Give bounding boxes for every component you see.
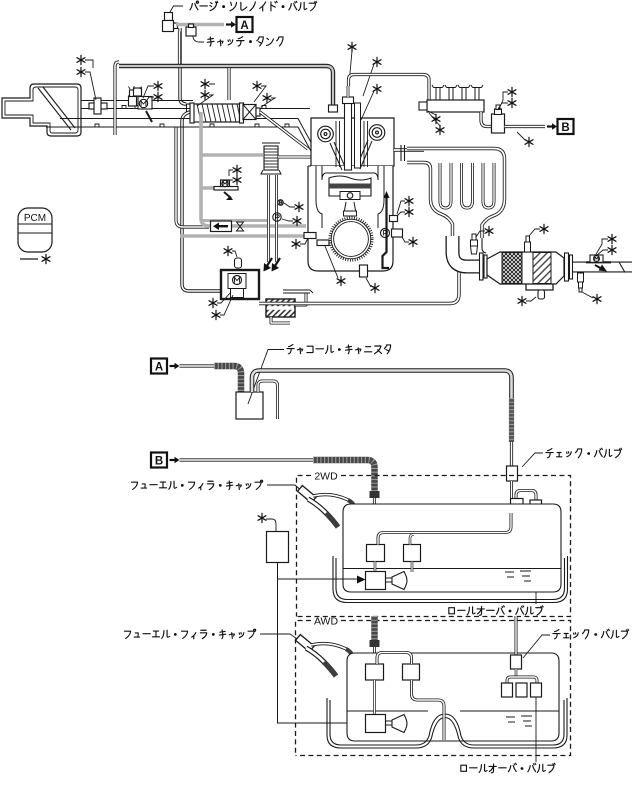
connector A box: [237, 17, 253, 32]
canister line into AWD: [515, 616, 518, 655]
feed line into pump: [290, 578, 358, 580]
rear O2 sensor: [578, 273, 584, 282]
ref mark: [593, 294, 601, 303]
EGR valve box M: [221, 270, 259, 299]
svg-text:2WD: 2WD: [314, 471, 338, 483]
long pipe to exhaust: [259, 268, 459, 304]
leader catch tank: [193, 36, 204, 42]
2WD fuel tank: [343, 504, 561, 592]
conn rod: [344, 202, 356, 213]
ref mark: [233, 165, 241, 174]
breather tube 2WD: [313, 495, 354, 514]
label: charcoal canister: [287, 345, 391, 354]
charcoal canister: [236, 392, 263, 419]
sensor capsule above: [235, 258, 242, 268]
catch tank: [186, 27, 196, 36]
middle O2 sensor: [525, 242, 531, 252]
injector tube: [355, 103, 361, 168]
canister line (hatched): [252, 371, 512, 401]
dark band on pipe: [586, 261, 611, 263]
purge hose down to duct fitting: [180, 28, 186, 104]
check valve AWD: [511, 655, 522, 669]
lower duct bottom edge: [46, 127, 313, 155]
leader crank fitting: [325, 246, 338, 278]
ref mark: [525, 137, 533, 146]
cam pulley right: [369, 125, 385, 141]
fork outer left: [407, 163, 453, 239]
sensor circle P: [273, 213, 281, 221]
intake valve: [330, 142, 346, 170]
fork slot: [440, 163, 451, 208]
leaders bypass valve: [254, 86, 275, 107]
filler neck AWD: [306, 648, 336, 676]
leader check valve AWD: [523, 635, 550, 658]
hatched cooler: [266, 299, 295, 317]
leaders to throttle: [143, 86, 154, 102]
vacuum solenoid M: [214, 187, 238, 191]
air cleaner hatch lines: [38, 87, 75, 130]
ref mark: [253, 81, 261, 90]
hatched segment: [509, 398, 514, 442]
ref mark: [42, 254, 50, 263]
ref mark: [154, 81, 162, 90]
pipe joint: [619, 262, 625, 273]
vent pipe in tank: [378, 513, 511, 545]
ref mark: [293, 216, 301, 225]
breather tube AWD: [311, 644, 352, 663]
hose coil to engine: [278, 157, 318, 170]
fuel damper: [481, 112, 492, 127]
pipe into saddle: [412, 680, 445, 740]
gray branch to P sensor: [202, 219, 270, 222]
label: catch tank: [207, 37, 283, 46]
crank toothed wheel: [330, 218, 373, 261]
bold pointer solenoid: [224, 192, 231, 198]
leader line to rollover label: [535, 512, 537, 604]
exhaust downpipe elbow: [453, 236, 482, 267]
canister vent pipe: [258, 381, 278, 419]
exhaust valve: [356, 140, 372, 169]
filler neck 2WD: [308, 499, 338, 527]
ref mark: [212, 310, 220, 319]
hose pair right: [275, 175, 278, 262]
rollover manifold AWD: [507, 677, 537, 683]
fuel pump 2WD: [366, 572, 386, 590]
rollover valve assembly right: [516, 491, 536, 501]
ref mark: [348, 42, 356, 51]
combustion chamber: [322, 166, 378, 180]
pressure control unit: [267, 532, 289, 563]
fork slot: [483, 163, 494, 208]
pipe from B: [180, 458, 314, 461]
ref mark: [540, 224, 548, 233]
ref mark: [508, 98, 516, 107]
ref mark: [608, 234, 616, 243]
line to AWD pump: [278, 579, 291, 723]
label: check valve 2WD: [546, 448, 622, 458]
leaders to MAF: [85, 60, 96, 100]
filler cap 2WD: [298, 486, 317, 503]
PCM module: [18, 208, 52, 252]
fitting right upper: [390, 216, 398, 222]
injector stub: [432, 85, 444, 100]
leaders corrugated hose: [197, 84, 215, 106]
cylinder walls: [316, 166, 384, 228]
hose drop to corrugated hose: [227, 68, 230, 100]
svg-text:A: A: [240, 20, 248, 32]
connector A (lower): [151, 359, 167, 374]
purge solenoid valve: [165, 13, 173, 21]
label: rollover valve AWD: [461, 763, 555, 773]
orifice symbol: [237, 222, 244, 231]
pipe from A: [180, 364, 215, 367]
sensor circle 1: [278, 200, 284, 206]
ref mark: [292, 239, 300, 248]
upper duct top edge: [81, 100, 193, 102]
arrow out of B: [170, 459, 176, 461]
filler cap AWD: [296, 635, 315, 652]
svg-text:PCM: PCM: [24, 213, 46, 224]
bypass valve: [243, 105, 256, 120]
throttle body motor M: [138, 97, 152, 110]
ref mark: [405, 207, 413, 216]
leader check valve: [522, 453, 543, 467]
exhaust flange 1: [480, 253, 484, 280]
ref mark: [405, 196, 413, 205]
MAF sensor: [89, 103, 107, 109]
ref mark: [409, 237, 417, 246]
jet pump funnel 2WD: [392, 572, 407, 590]
AWD tank outer shell (saddle): [330, 700, 564, 745]
ref mark: [201, 79, 209, 88]
gray branch to solenoid: [201, 186, 215, 190]
head tower walls: [336, 121, 368, 167]
fork slot: [462, 163, 473, 208]
pressure sensor P on engine: [381, 229, 390, 238]
label: purge solenoid valve: [190, 1, 317, 11]
gray hose to coil: [201, 153, 263, 157]
check valve 2WD: [507, 466, 518, 481]
ref mark: [373, 84, 381, 93]
purge hose to A (gray): [176, 23, 224, 27]
AWD fuel tank body: [347, 653, 559, 741]
ref mark: [371, 283, 379, 292]
ref mark: [154, 92, 162, 101]
ref mark: [518, 296, 526, 305]
svg-text:AWD: AWD: [314, 616, 339, 628]
rollover valve right 2WD: [404, 545, 421, 562]
cam pulley left: [318, 126, 334, 142]
catalytic converter: [487, 252, 564, 284]
svg-text:B: B: [155, 455, 163, 467]
ref mark: [258, 513, 266, 522]
ref mark: [77, 67, 85, 76]
front O2 sensor: [471, 240, 478, 246]
fuel marks AWD: [506, 716, 532, 726]
ref mark: [436, 125, 444, 134]
engine block: [308, 166, 393, 271]
ref mark: [77, 55, 85, 64]
bold pointer throttle: [146, 111, 152, 122]
bold EVAP line on engine: [383, 197, 390, 268]
gray hose lower to engine: [180, 234, 306, 238]
duct fitting: [187, 104, 195, 112]
hose duct to upper line: [115, 62, 119, 135]
connector B (lower): [151, 453, 167, 468]
injector stub: [458, 85, 470, 100]
ref mark: [233, 175, 241, 184]
hose pair left: [267, 175, 270, 262]
ref mark: [373, 57, 381, 66]
label: check valve AWD: [553, 629, 629, 639]
hose duct drain: [176, 127, 209, 227]
dark hose from A: [214, 366, 241, 392]
fork outer right: [407, 149, 505, 239]
cooler pipe upper: [295, 293, 306, 305]
corrugated intake hose: [194, 104, 240, 122]
arrow into B: [547, 125, 553, 127]
spark plug tube: [345, 103, 352, 170]
fitting left low: [317, 240, 329, 246]
arrow into A: [226, 23, 232, 25]
manifold flange: [401, 145, 405, 161]
jet pump funnel AWD: [392, 715, 407, 733]
cooler pipe lower: [271, 317, 290, 323]
gray hose throttle down and right to engine: [201, 112, 306, 226]
rollover valve left 2WD: [367, 545, 385, 562]
hose head to fuel rail: [349, 75, 430, 101]
ref mark: [337, 276, 345, 285]
leader purge solenoid valve: [170, 6, 183, 12]
fuel level AWD: [347, 710, 559, 712]
injector stub: [471, 85, 483, 100]
upper duct bottom edge: [81, 108, 310, 110]
check valve (one-way): [211, 221, 232, 232]
leader to rollover label AWD: [535, 697, 537, 762]
under-cat chamber: [526, 284, 553, 290]
tail pipe: [573, 262, 632, 273]
fuel pump AWD: [366, 715, 386, 733]
line to 2WD pump: [278, 563, 291, 580]
ref mark: [508, 87, 516, 96]
leaders top: [349, 51, 374, 120]
svg-text:A: A: [155, 361, 163, 373]
rollover valve right AWD: [403, 664, 420, 680]
ref mark: [224, 246, 232, 255]
dark hose into AWD tank: [371, 616, 378, 641]
air cleaner box: [2, 84, 81, 136]
fuel level 2WD: [343, 568, 561, 570]
exhaust flange 2: [565, 253, 569, 281]
pipe down to rollover valve: [373, 498, 376, 545]
leader canister: [248, 350, 284, 405]
injector stub: [445, 85, 457, 100]
fuel marks 2WD: [505, 571, 531, 581]
piston: [329, 176, 371, 196]
PCM wire: [20, 258, 38, 260]
exhaust manifold fork: [394, 148, 424, 152]
ref mark: [295, 202, 303, 211]
hose duct down to EGR box: [182, 112, 221, 291]
arrow out of A: [170, 365, 176, 367]
leader filler cap AWD: [260, 634, 303, 643]
ref mark: [432, 114, 440, 123]
pipe to B: [505, 125, 546, 128]
corrugated riser coil: [264, 146, 278, 170]
elbow into right valve: [410, 535, 414, 545]
leader filler cap: [267, 485, 305, 494]
fitting at engine top: [329, 105, 338, 112]
connector B box: [558, 119, 574, 134]
AWD dashed boundary: [296, 621, 571, 756]
rollover valve left AWD: [366, 664, 384, 680]
bold arrows at hose ends: [265, 258, 280, 269]
leaders EGR box: [217, 292, 233, 315]
fuel rail: [427, 100, 484, 112]
bridge pipe AWD: [377, 653, 412, 665]
svg-text:B: B: [561, 122, 569, 134]
label: rollover valve 2WD: [449, 606, 543, 616]
label: fuel filler cap 2WD: [131, 480, 262, 490]
tank outer shell: [336, 558, 565, 600]
2WD dashed boundary: [297, 476, 571, 617]
label: fuel filler cap AWD: [124, 629, 255, 639]
duct bypass valve to engine: [260, 112, 308, 149]
fitting bottom: [360, 265, 368, 277]
fitting left: [304, 233, 316, 239]
ref mark: [485, 226, 493, 235]
hose air duct to engine (gray core): [119, 66, 333, 105]
ref mark: [263, 93, 271, 102]
lower duct top edge: [60, 119, 313, 147]
dark hose from B: [313, 460, 375, 492]
engine cylinder head: [311, 118, 394, 166]
ref mark: [201, 90, 209, 99]
ref mark: [209, 298, 217, 307]
ref mark: [608, 245, 616, 254]
hose purge valve branch: [178, 32, 181, 67]
